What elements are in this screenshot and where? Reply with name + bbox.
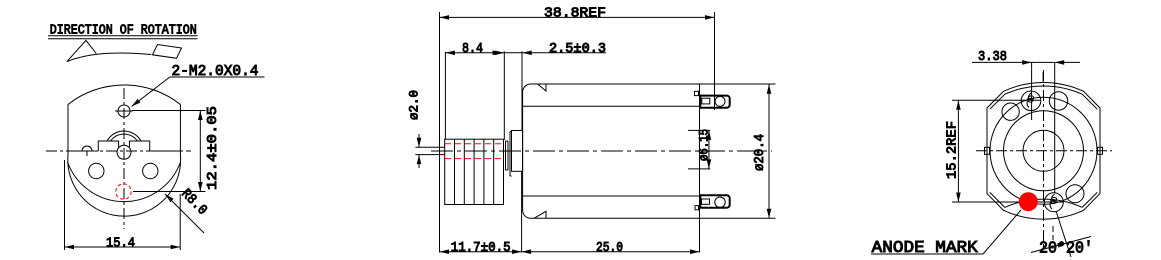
front view shaft hole — [117, 145, 131, 159]
dimension 15.4 extension lines — [65, 160, 181, 250]
label leader — [132, 77, 170, 107]
back view hole top-left — [1002, 103, 1019, 120]
dimension 12.4±0.05 extension lines — [132, 111, 206, 192]
svg-text:12.4±0.05: 12.4±0.05 — [205, 106, 221, 190]
back view right side tab — [1098, 147, 1103, 154]
back view horizontal centerline — [976, 150, 1112, 152]
dimension 11.7±0.5 arrow right — [512, 249, 522, 254]
back view bearing circle — [1023, 130, 1064, 171]
svg-text:11.7±0.5: 11.7±0.5 — [451, 240, 511, 256]
dimension R8.0 arrowhead — [163, 192, 173, 202]
dimension 15.4 arrow right — [171, 245, 181, 250]
motor body top notch — [538, 84, 547, 91]
dimension 25.0 arrow left — [522, 249, 532, 254]
front view bearing dome inner arc — [111, 134, 138, 141]
dimension 25.0 arrow right — [690, 249, 700, 254]
ANODE MARK leader — [983, 210, 1021, 254]
pigtail symbol bottom — [1050, 194, 1057, 209]
title double underline — [48, 36, 198, 39]
back view left side tab — [985, 147, 990, 154]
dimension 2.5±0.3 line — [494, 52, 606, 54]
back view vertical centerline — [1043, 70, 1045, 247]
worm gear teeth lines — [455, 139, 494, 204]
front view anode hole (red dashed) — [116, 184, 131, 199]
dimension 3.38 arrow pointing left — [1055, 60, 1065, 65]
dimension 11.7±0.5 line — [440, 251, 522, 253]
back view middle circle — [1004, 111, 1084, 191]
front view inner flange arc — [68, 162, 181, 202]
dimension 3.38 center tick — [1042, 72, 1044, 82]
dimension ø20.4 arrow down — [767, 209, 772, 219]
back view outline inner — [990, 86, 1098, 207]
top terminal tab — [700, 96, 729, 108]
dimension ø20.4 line — [768, 84, 770, 218]
svg-text:ANODE MARK: ANODE MARK — [872, 239, 979, 258]
svg-text:15.2REF: 15.2REF — [945, 121, 961, 179]
front view step profile — [98, 141, 180, 151]
label underline — [170, 76, 265, 78]
dimension 38.8REF arrow right — [705, 15, 715, 20]
front view left vent hole — [89, 163, 104, 178]
worm gear body — [445, 139, 504, 204]
pigtail symbol top — [1027, 93, 1034, 108]
motor body internal line upper — [523, 105, 700, 107]
label leader arrowhead — [130, 99, 140, 108]
dimension 11.7±0.5 arrow left — [440, 249, 450, 254]
front view right vent hole — [143, 163, 158, 178]
dimension 15.2REF line — [957, 100, 959, 202]
svg-text:15.4: 15.4 — [106, 235, 135, 251]
back view hole bottom-middle — [1044, 193, 1063, 212]
dimension ø20.4 extension lines — [700, 84, 776, 218]
svg-text:ø6.15: ø6.15 — [697, 129, 712, 161]
dimension 25.0 line — [522, 251, 700, 253]
bottom terminal hole — [715, 197, 725, 207]
motor body internal line lower — [523, 195, 700, 197]
extension line between 11.7 and 25.0 — [521, 171, 523, 252]
top terminal slot — [702, 98, 710, 104]
dimension 8.4 extension line — [444, 52, 446, 139]
dimension 38.8REF line — [440, 16, 715, 18]
back view outline outer — [987, 82, 1100, 219]
dimension 3.38 extension lines — [1032, 62, 1055, 193]
front view horizontal centerline — [46, 150, 191, 152]
dimension 15.4 line — [65, 246, 181, 248]
dimension ø6.15 line — [708, 130, 710, 169]
back view anode mark red dot — [1019, 192, 1038, 211]
dimension 15.2REF arrow down — [956, 193, 961, 203]
dimension 38.8REF extension lines — [440, 12, 715, 253]
front view outline — [68, 85, 181, 216]
dimension ø6.15 arrow down — [707, 159, 712, 169]
back view flange circle — [990, 97, 1097, 204]
dimension 8.4 arrow right — [493, 51, 503, 56]
bottom terminal tab — [700, 195, 729, 207]
bearing washer lines — [506, 141, 509, 170]
dimension 3.38 arrow pointing right — [1022, 60, 1032, 65]
hidden shaft lines (red dashed) — [445, 144, 504, 159]
side view shaft tip lines — [415, 147, 444, 154]
top terminal side square — [695, 91, 699, 95]
bottom terminal side square — [695, 206, 699, 210]
dimension 12.4±0.05 arrow up — [198, 111, 203, 121]
angle 20°20' dimension line — [1031, 237, 1091, 253]
front view chord left bump — [82, 146, 92, 156]
dimension 12.4±0.05 line — [199, 111, 201, 192]
dimension 8.4 arrow left — [445, 51, 455, 56]
dimension 38.8REF arrow left — [440, 15, 450, 20]
dimension 15.4 arrow left — [65, 245, 75, 250]
motor body outline — [523, 84, 700, 218]
svg-text:8.4: 8.4 — [462, 41, 483, 57]
front view chord left — [68, 150, 98, 152]
side view center axis — [431, 150, 772, 152]
dimension R8.0 leader — [165, 194, 204, 233]
svg-text:ø20.4: ø20.4 — [752, 134, 768, 171]
dimension ø2.0 arrow down — [417, 138, 422, 148]
rotation arrowhead — [67, 40, 96, 61]
front view mounting hole cross tick — [115, 110, 133, 112]
rotation arrow arc — [67, 53, 151, 62]
back view hole top-right — [1049, 92, 1067, 110]
svg-text:3.38: 3.38 — [978, 49, 1007, 65]
svg-text:2.5±0.3: 2.5±0.3 — [549, 41, 606, 57]
angle 20°20' leader steep — [1056, 211, 1071, 257]
endcap boss lines ø6.15 — [688, 130, 710, 169]
rotation flag rectangle — [153, 45, 182, 59]
dimension 15.2REF arrow up — [956, 100, 961, 110]
dimension 15.2REF extension lines — [952, 100, 1063, 202]
ANODE MARK underline — [871, 253, 983, 255]
angle 20°20' center dash — [1052, 226, 1054, 240]
dimension ø6.15 arrow up — [707, 130, 712, 140]
dimension 12.4±0.05 arrow down — [198, 182, 203, 192]
back view hole top-middle — [1021, 91, 1041, 111]
dimension ø2.0 line and arrows — [418, 134, 420, 168]
dimension 2.5±0.3 extension lines — [504, 51, 522, 140]
dimension 25.0 right extension — [699, 218, 701, 252]
dimension 3.38 line — [972, 61, 1080, 63]
front view bearing dome outer arc — [107, 131, 141, 141]
top terminal hole — [715, 96, 725, 106]
svg-text:ø2.0: ø2.0 — [407, 90, 422, 120]
svg-text:38.8REF: 38.8REF — [544, 6, 606, 22]
dimension ø20.4 arrow up — [767, 84, 772, 94]
dimension 8.4 line — [445, 52, 502, 54]
bottom terminal slot — [702, 199, 710, 204]
motor body bottom notch — [534, 211, 546, 218]
dimension 2.5±0.3 arrow pointing right — [495, 51, 505, 56]
svg-text:20°20': 20°20' — [1039, 240, 1093, 259]
dimension 2.5±0.3 arrow pointing left — [522, 51, 532, 56]
front view vertical centerline — [123, 88, 125, 229]
bearing retainer — [510, 132, 512, 177]
svg-text:25.0: 25.0 — [596, 240, 623, 256]
bearing boss — [512, 131, 523, 172]
back view hole bottom-right — [1066, 185, 1084, 203]
dimension ø2.0 arrow up — [417, 155, 422, 165]
front view mounting hole M2 — [118, 105, 130, 117]
angle 20°20' arrowhead — [1057, 241, 1067, 248]
